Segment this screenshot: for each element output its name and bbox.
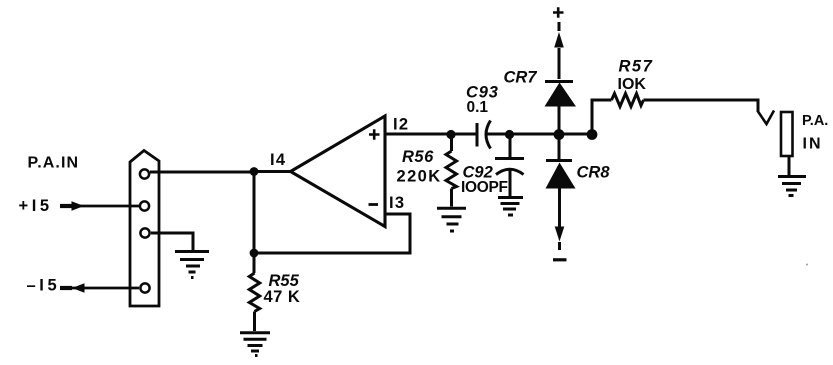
- svg-text:47 K: 47 K: [264, 288, 301, 306]
- svg-text:CR8: CR8: [577, 164, 611, 182]
- svg-text:P.A.: P.A.: [802, 113, 828, 129]
- svg-text:R56: R56: [402, 148, 434, 166]
- svg-text:I4: I4: [270, 151, 286, 169]
- svg-text:IOOPF: IOOPF: [461, 179, 508, 196]
- svg-text:IOK: IOK: [618, 76, 647, 93]
- svg-text:R57: R57: [619, 58, 654, 76]
- svg-text:I2: I2: [393, 116, 409, 134]
- svg-text:0.1: 0.1: [467, 99, 489, 116]
- svg-text:IN: IN: [803, 136, 823, 153]
- svg-text:P.A.IN: P.A.IN: [28, 155, 80, 172]
- svg-text:220K: 220K: [397, 168, 442, 186]
- svg-text:I3: I3: [389, 194, 405, 212]
- svg-text:+I5: +I5: [19, 197, 53, 215]
- svg-text:–I5: –I5: [27, 276, 61, 294]
- svg-text:CR7: CR7: [504, 69, 538, 87]
